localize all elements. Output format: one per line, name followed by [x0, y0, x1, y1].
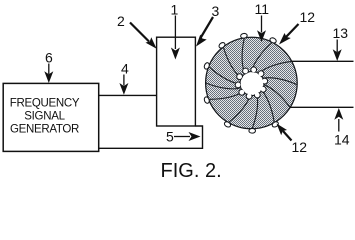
- svg-text:1: 1: [171, 2, 179, 18]
- frequency signal generator box 6: [3, 83, 99, 151]
- svg-text:3: 3: [212, 3, 220, 19]
- arrow for label 3: [201, 17, 214, 38]
- frequency signal generator label: [10, 98, 80, 136]
- svg-text:2: 2: [117, 13, 125, 29]
- svg-text:14: 14: [334, 132, 350, 148]
- arrow for label 6: [48, 64, 50, 75]
- wire 5 : generator to transducer bottom lead: [99, 126, 203, 148]
- wire 4 : generator to transducer top lead: [99, 94, 157, 96]
- arrow for label 4: [123, 75, 125, 86]
- svg-text:6: 6: [45, 50, 53, 66]
- svg-text:12: 12: [292, 139, 308, 155]
- transducer body 1: [157, 37, 196, 126]
- svg-text:4: 4: [121, 61, 129, 77]
- svg-text:13: 13: [333, 25, 349, 41]
- arrow for label 11: [261, 16, 263, 33]
- wire lead 14: [290, 106, 354, 108]
- winding turns: [206, 38, 297, 128]
- svg-text:11: 11: [255, 1, 270, 17]
- svg-text:GENERATOR: GENERATOR: [10, 124, 79, 136]
- svg-text:SIGNAL: SIGNAL: [24, 111, 65, 123]
- arrow for label 5: [174, 136, 190, 138]
- wire lead 13: [292, 60, 354, 62]
- arrow for label 12 top: [286, 24, 299, 37]
- svg-text:FREQUENCY: FREQUENCY: [10, 98, 80, 110]
- arrow for label 12 bottom: [283, 131, 292, 141]
- svg-text:5: 5: [166, 129, 174, 145]
- arrow for label 13: [336, 40, 338, 53]
- arrow for label 14: [338, 119, 340, 132]
- arrow for label 2: [130, 23, 149, 42]
- svg-text:12: 12: [300, 9, 316, 25]
- toroidal core 11 with windings 12: [203, 33, 297, 133]
- arrow for label 1: [174, 16, 176, 50]
- inner wire loops: [235, 67, 267, 99]
- svg-text:FIG. 2.: FIG. 2.: [161, 160, 222, 182]
- outer wire loops: [203, 33, 279, 133]
- core inner hole: [240, 72, 264, 96]
